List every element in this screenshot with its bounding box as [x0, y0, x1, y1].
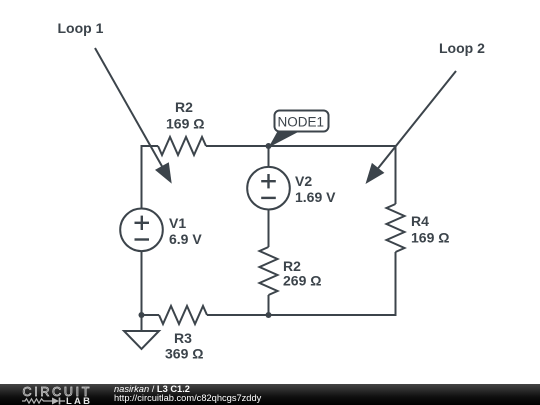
svg-text:Loop 2: Loop 2 — [439, 40, 485, 56]
CircuitLab logo — [0, 384, 110, 405]
svg-text:169 Ω: 169 Ω — [166, 116, 204, 132]
resistor R2 (top, 169 ohm) zigzag — [158, 137, 206, 155]
wire middle branch between V2 and R2 — [268, 210, 270, 248]
V2 minus sign — [261, 197, 276, 199]
wire left rail upper — [141, 145, 143, 209]
svg-text:1.69 V: 1.69 V — [295, 189, 336, 205]
V1 minus sign — [135, 238, 150, 240]
logo diode — [52, 398, 59, 405]
svg-text:V2: V2 — [295, 173, 312, 189]
ground triangle — [124, 331, 159, 349]
svg-text:NODE1: NODE1 — [278, 115, 325, 130]
wire right rail lower — [395, 252, 397, 316]
svg-text:LAB: LAB — [66, 396, 92, 405]
V1 plus sign — [135, 216, 150, 230]
footer credit line 2 — [114, 393, 261, 403]
NODE1 flag tail — [269, 131, 302, 148]
node dot bottom-left junction — [139, 312, 145, 318]
wire left rail lower — [141, 251, 143, 315]
resistor R2 (middle, 269 ohm) zigzag — [260, 247, 278, 295]
wire bottom rail right segment — [207, 314, 397, 316]
resistor R3 (369 ohm) zigzag — [159, 306, 207, 324]
V2 plus sign — [261, 174, 276, 188]
wire bottom rail left segment — [141, 314, 160, 316]
node dot bottom-middle junction — [266, 312, 272, 318]
NODE1 flag box — [275, 111, 329, 132]
footer credit line 1 — [114, 384, 190, 394]
svg-text:R2: R2 — [175, 99, 193, 115]
svg-text:R4: R4 — [411, 213, 429, 229]
svg-text:Loop 1: Loop 1 — [58, 20, 104, 36]
voltage source V1 circle — [120, 209, 163, 252]
footer bar — [0, 384, 540, 405]
svg-text:169 Ω: 169 Ω — [411, 230, 449, 246]
wire middle branch top — [268, 146, 270, 167]
svg-text:269 Ω: 269 Ω — [283, 273, 321, 289]
node dot NODE1 junction — [266, 143, 272, 149]
Loop 1 annotation arrow — [95, 48, 172, 184]
wire middle branch bottom — [268, 295, 270, 315]
wire top rail left segment — [141, 145, 159, 147]
wire right rail upper — [395, 145, 397, 204]
wire top rail right segment — [206, 145, 397, 147]
voltage source V2 circle — [247, 167, 290, 210]
Loop 2 annotation arrow — [366, 71, 457, 184]
svg-text:R3: R3 — [174, 330, 192, 346]
ground stub — [141, 315, 143, 331]
svg-text:369 Ω: 369 Ω — [165, 346, 203, 362]
svg-text:6.9 V: 6.9 V — [169, 231, 202, 247]
svg-text:V1: V1 — [169, 215, 186, 231]
resistor R4 (169 ohm) zigzag — [387, 204, 405, 252]
logo resistor squiggle — [22, 399, 52, 403]
